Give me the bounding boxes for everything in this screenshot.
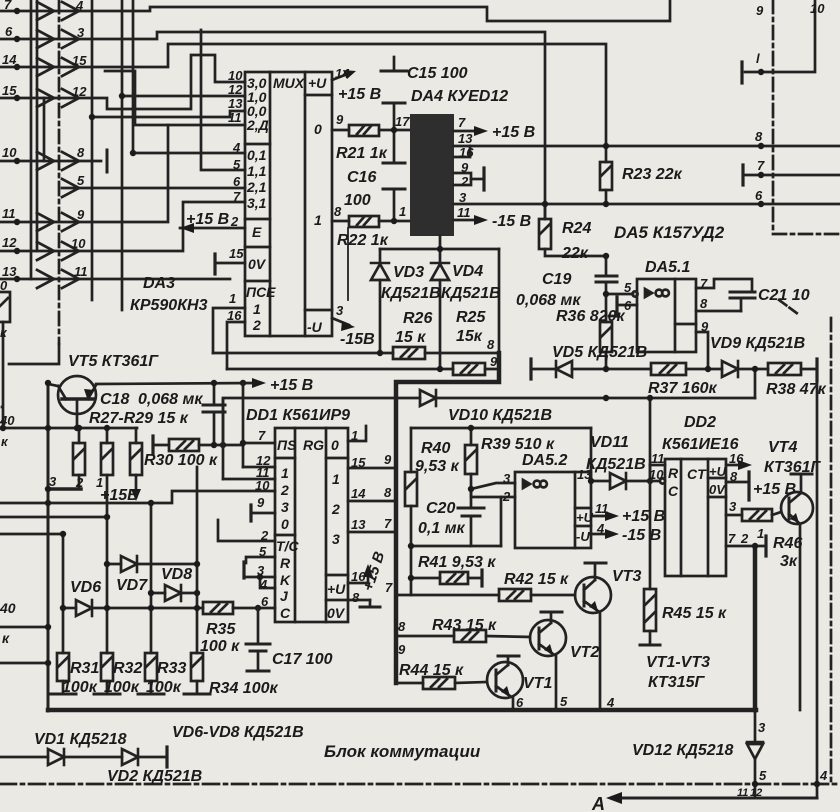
svg-text:C: C <box>668 483 679 499</box>
junction dots diode net <box>437 246 443 252</box>
resistor R39 <box>470 428 473 445</box>
wire net row y534 <box>0 533 63 536</box>
svg-text:1: 1 <box>332 471 340 487</box>
diode VD7 row <box>107 563 121 566</box>
terminal bar DA4 pins 9,2 <box>482 168 485 190</box>
svg-text:КД521В: КД521В <box>441 285 501 302</box>
short vertical link <box>43 98 46 161</box>
svg-text:R34 100к: R34 100к <box>209 680 278 697</box>
svg-text:R35: R35 <box>206 621 236 638</box>
svg-text:R21 1к: R21 1к <box>336 145 388 162</box>
svg-text:VD2 КД521В: VD2 КД521В <box>107 768 202 785</box>
svg-text:R33: R33 <box>157 660 186 677</box>
thick feedback wire <box>396 353 499 683</box>
svg-text:15: 15 <box>72 53 87 68</box>
capacitor C17 <box>257 608 260 644</box>
svg-text:5: 5 <box>759 768 767 783</box>
capacitor C21 <box>730 291 755 294</box>
svg-text:10: 10 <box>255 478 270 493</box>
connector chevron row1 <box>37 2 79 20</box>
svg-text:R: R <box>280 555 291 571</box>
svg-text:16: 16 <box>459 145 474 160</box>
svg-text:VT2: VT2 <box>570 644 599 661</box>
svg-text:2: 2 <box>502 489 511 504</box>
svg-text:2: 2 <box>740 531 749 546</box>
svg-text:VD9 КД521В: VD9 КД521В <box>710 335 805 352</box>
svg-text:C18: C18 <box>100 391 129 408</box>
svg-text:22к: 22к <box>561 245 589 262</box>
svg-text:3: 3 <box>503 471 511 486</box>
arrowhead emitter VT4 <box>790 513 799 523</box>
junction dots DA5.1 area <box>603 143 609 149</box>
svg-text:VD5 КД521В: VD5 КД521В <box>552 344 647 361</box>
svg-text:R42 15 к: R42 15 к <box>504 571 569 588</box>
wire net 7 from terminal <box>745 174 840 177</box>
svg-text:ПCE: ПCE <box>246 284 276 300</box>
svg-text:7: 7 <box>258 428 266 443</box>
svg-text:8: 8 <box>730 469 738 484</box>
svg-text:10: 10 <box>810 1 825 16</box>
svg-text:5: 5 <box>624 280 632 295</box>
svg-text:КР590КН3: КР590КН3 <box>130 297 208 314</box>
wire R34 column <box>196 467 199 653</box>
svg-text:1: 1 <box>757 526 764 541</box>
svg-text:7: 7 <box>458 115 466 130</box>
junction dots diode rows <box>45 500 51 506</box>
svg-text:VD6-VD8 КД521В: VD6-VD8 КД521В <box>172 724 304 741</box>
svg-text:9: 9 <box>336 112 344 127</box>
svg-text:R31: R31 <box>70 660 99 677</box>
diode VD3 <box>379 249 382 262</box>
svg-text:9,53 к: 9,53 к <box>415 458 460 475</box>
diode VD5 <box>556 361 572 377</box>
wire DA5.1 pin5 <box>606 293 633 296</box>
svg-text:10: 10 <box>2 145 17 160</box>
hybrid DA4 KUED12 black body <box>410 114 454 236</box>
svg-text:15к: 15к <box>456 328 483 345</box>
svg-text:VT4: VT4 <box>768 439 797 456</box>
svg-text:7: 7 <box>384 516 392 531</box>
wire R22 to DA4 pin1 <box>379 220 410 223</box>
terminal DD1 pin9 <box>249 505 252 521</box>
wire left trunk vertical <box>47 383 50 711</box>
svg-text:8: 8 <box>77 145 85 160</box>
svg-text:+15 В: +15 В <box>270 377 313 394</box>
arrowhead net A <box>606 792 622 804</box>
wire diode net top edge <box>380 248 499 251</box>
connector chevron row3 <box>37 58 79 76</box>
boundary dash-dot right lower <box>830 318 833 784</box>
bus line left 2 <box>36 0 39 251</box>
svg-text:16: 16 <box>729 451 744 466</box>
wire thick DD2 to bottom <box>753 546 758 710</box>
svg-text:VT3: VT3 <box>612 568 641 585</box>
svg-text:DA5.2: DA5.2 <box>522 452 567 469</box>
svg-text:11: 11 <box>595 501 609 516</box>
svg-text:7: 7 <box>385 580 393 595</box>
resistor R46 <box>742 509 772 521</box>
wire VD1 VD2 row <box>0 756 48 759</box>
wire row8 to pin 3.1 <box>0 202 245 251</box>
svg-text:15: 15 <box>229 246 244 261</box>
arrowhead +15V E pin <box>180 223 194 233</box>
svg-text:9: 9 <box>461 160 469 175</box>
wire to DD2 inputs <box>649 398 652 481</box>
arrowhead emitter VT3 <box>589 601 598 611</box>
wire DA3 pin9 to R21 <box>332 129 349 132</box>
wire DD1 pin16 +15V arrow <box>348 582 368 585</box>
svg-text:2: 2 <box>252 317 261 333</box>
transistor VT1 <box>487 662 523 698</box>
wire +15V rail VT5 <box>96 383 258 384</box>
resistor R36 <box>605 294 608 322</box>
bus line left 1 <box>30 0 33 279</box>
svg-text:100к: 100к <box>62 679 98 696</box>
arrowhead +15V R29 down <box>131 489 141 501</box>
svg-text:4: 4 <box>606 695 615 710</box>
wire DA5.1 pin8 <box>696 310 741 313</box>
terminal bar row5 <box>106 150 109 172</box>
svg-text:DA4 КУЕD12: DA4 КУЕD12 <box>411 88 508 105</box>
svg-text:11: 11 <box>651 451 665 466</box>
terminal bar net 7 <box>741 165 744 185</box>
transistor VT5 <box>58 376 96 414</box>
wire DD2 pin3 to R46 <box>726 514 742 517</box>
svg-text:2: 2 <box>280 482 289 498</box>
wire riser to pin 1.1 <box>201 30 245 170</box>
svg-text:9: 9 <box>490 354 498 369</box>
wire R43 row <box>396 635 454 638</box>
wire DA4 pin3 net 6 <box>454 203 840 206</box>
svg-text:8: 8 <box>352 590 360 605</box>
op-amp DA5.2 symbol <box>523 480 530 488</box>
wire mesh link upper <box>105 71 168 125</box>
svg-text:10: 10 <box>649 467 664 482</box>
wire DD1 pin13 net7 <box>348 531 396 534</box>
svg-text:VD10 КД521В: VD10 КД521В <box>448 407 552 424</box>
svg-text:КТ361Г: КТ361Г <box>764 459 822 476</box>
svg-text:R39 510 к: R39 510 к <box>481 436 555 453</box>
svg-text:T/C: T/C <box>276 538 299 554</box>
svg-text:13: 13 <box>458 131 473 146</box>
svg-text:R44 15 к: R44 15 к <box>399 662 464 679</box>
svg-text:0V: 0V <box>248 256 267 272</box>
junction dots bottom right <box>752 543 758 549</box>
wire DD1 pin6 from R35 <box>233 607 275 610</box>
svg-text:17: 17 <box>395 114 410 129</box>
wire VD10 net <box>223 397 420 400</box>
wire DA4 pin9 pin2 to terminal <box>454 173 471 185</box>
svg-text:0: 0 <box>331 437 339 453</box>
svg-text:R22 1к: R22 1к <box>337 232 389 249</box>
svg-text:9: 9 <box>384 452 392 467</box>
svg-text:16: 16 <box>227 308 242 323</box>
arrowhead -15V DA4 pin11 <box>474 215 488 225</box>
capacitor C18 <box>213 383 216 405</box>
diode VD8 row <box>151 592 165 595</box>
transistor VT4 <box>781 492 813 524</box>
wire row9 <box>0 278 230 281</box>
svg-text:2: 2 <box>331 501 340 517</box>
bus line left 4 <box>121 0 124 310</box>
resistor R43 <box>454 630 486 642</box>
svg-text:+15 В: +15 В <box>186 211 229 228</box>
svg-text:1: 1 <box>96 475 103 490</box>
resistor R37 <box>651 363 686 375</box>
svg-text:0,1: 0,1 <box>247 147 267 163</box>
svg-text:3: 3 <box>336 303 344 318</box>
register DD1 K561IR9 box <box>275 428 348 622</box>
svg-text:11: 11 <box>457 205 471 220</box>
svg-text:R46: R46 <box>773 535 802 552</box>
resistor R29 <box>135 428 138 443</box>
svg-text:15: 15 <box>351 455 366 470</box>
diode VD2 <box>122 749 138 765</box>
svg-text:VD7: VD7 <box>116 577 148 594</box>
svg-text:R25: R25 <box>456 309 486 326</box>
svg-text:к: к <box>2 630 10 646</box>
svg-text:40: 40 <box>0 600 16 616</box>
svg-text:0: 0 <box>314 121 322 137</box>
boundary terminus wire <box>9 344 59 364</box>
svg-text:8: 8 <box>755 129 763 144</box>
svg-text:1: 1 <box>399 204 406 219</box>
svg-text:14: 14 <box>335 66 350 81</box>
wire row3 <box>0 44 606 146</box>
svg-text:11: 11 <box>737 787 748 799</box>
svg-text:VT1: VT1 <box>523 675 552 692</box>
svg-text:-U: -U <box>576 529 590 544</box>
svg-text:+U: +U <box>709 464 727 479</box>
wire DD2 pin11 <box>649 465 652 481</box>
op-amp DA5.2 box <box>515 472 591 548</box>
svg-text:R32: R32 <box>113 660 142 677</box>
connector chevron row2 <box>37 30 79 48</box>
wire DD1 pin15 net9 <box>348 467 396 470</box>
multiplexer DA3 KR590KN3 box <box>245 72 332 336</box>
svg-text:l: l <box>756 51 760 66</box>
svg-text:R41 9,53 к: R41 9,53 к <box>418 554 496 571</box>
wire net 8 R26 row <box>213 352 393 355</box>
svg-text:1: 1 <box>281 465 289 481</box>
wire DA5.1 pin7 loop <box>696 279 752 292</box>
DA3 pin 2 E wire with +15V arrow <box>180 227 245 230</box>
wire bus to pin 0.1 <box>133 152 245 155</box>
resistor R23 <box>605 146 608 162</box>
svg-text:VD4: VD4 <box>452 263 483 280</box>
svg-text:7: 7 <box>4 0 12 12</box>
svg-text:VD12 КД5218: VD12 КД5218 <box>632 742 734 759</box>
wire top right input l <box>745 0 815 72</box>
wire DD1 pin12 <box>243 466 275 469</box>
diode VD10 <box>420 390 436 406</box>
wire net 9 R25 row <box>227 368 453 371</box>
transistor VT3 <box>575 577 611 613</box>
resistor 40k left edge <box>0 292 10 322</box>
svg-text:10: 10 <box>71 236 86 251</box>
svg-text:2: 2 <box>75 475 84 490</box>
svg-text:6: 6 <box>233 174 241 189</box>
wire collector bus row <box>3 427 137 430</box>
wire to pin 0.0 <box>92 111 245 117</box>
svg-text:5: 5 <box>77 173 85 188</box>
svg-text:2,1: 2,1 <box>246 179 267 195</box>
svg-text:VD1 КД5218: VD1 КД5218 <box>34 731 127 748</box>
svg-text:100к: 100к <box>146 679 182 696</box>
svg-text:0,068 мк: 0,068 мк <box>138 391 203 408</box>
arrowhead +15V DA4 pin7 <box>474 126 488 136</box>
wire DD1 pin5 <box>246 557 275 563</box>
DA3 pin 15 OV terminal <box>216 262 245 265</box>
boundary diagonal tick <box>779 300 798 314</box>
wire row7 to pin 2.D <box>0 125 245 222</box>
svg-text:1: 1 <box>314 212 322 228</box>
svg-text:+U: +U <box>308 75 327 91</box>
svg-text:DA5 К157УД2: DA5 К157УД2 <box>614 223 725 242</box>
svg-text:4: 4 <box>75 0 84 13</box>
resistor R26 <box>393 347 425 359</box>
node dots left rows <box>14 8 20 14</box>
boundary dash-dot line left <box>58 0 61 344</box>
svg-text:6: 6 <box>755 188 763 203</box>
svg-text:8: 8 <box>334 204 342 219</box>
svg-text:КТ315Г: КТ315Г <box>648 674 706 691</box>
wire +15V arrow rail above DD1 <box>222 398 225 401</box>
svg-text:+U: +U <box>327 581 346 597</box>
svg-text:12: 12 <box>750 787 762 799</box>
diode VD4 <box>439 249 442 262</box>
svg-text:3: 3 <box>332 531 340 547</box>
svg-text:R45 15 к: R45 15 к <box>662 605 727 622</box>
svg-text:+15 В: +15 В <box>338 86 381 103</box>
capacitor C16 <box>393 130 396 163</box>
wire DA5.1 pin6 terminal <box>619 304 637 307</box>
terminal bar input l <box>740 62 743 83</box>
wire R42 row <box>396 594 499 597</box>
svg-text:0: 0 <box>281 516 289 532</box>
diode VD11 <box>610 473 626 489</box>
resistor R30 <box>153 444 169 447</box>
svg-text:R30 100 к: R30 100 к <box>144 452 218 469</box>
wire VD5 R37 VD9 R38 net <box>533 368 556 371</box>
svg-text:2: 2 <box>460 174 469 189</box>
svg-text:5: 5 <box>560 694 568 709</box>
svg-text:8: 8 <box>384 485 392 500</box>
svg-text:R23 22к: R23 22к <box>622 166 683 183</box>
wire row5 <box>0 160 101 163</box>
svg-text:8: 8 <box>487 337 495 352</box>
wire DD1 pin8 ground <box>348 599 370 602</box>
boundary dash-dot right upper <box>772 0 775 234</box>
svg-text:VT1-VT3: VT1-VT3 <box>646 654 710 671</box>
svg-text:C: C <box>280 605 291 621</box>
svg-text:9: 9 <box>77 207 85 222</box>
svg-text:RG: RG <box>303 437 324 453</box>
connector chevron row4 <box>37 89 79 107</box>
wire R44 row <box>396 682 423 685</box>
capacitor C15 <box>393 57 396 71</box>
arrowhead +15V rail <box>252 378 266 388</box>
boundary dash-dot bottom <box>0 783 838 786</box>
terminal bar R38 right <box>815 359 818 381</box>
svg-text:11: 11 <box>74 264 88 279</box>
svg-text:C17 100: C17 100 <box>272 651 333 668</box>
svg-text:-15В: -15В <box>340 331 375 348</box>
svg-text:C21 10: C21 10 <box>758 287 810 304</box>
svg-text:2: 2 <box>260 528 269 543</box>
wire DD2 pin10 with bubble <box>650 480 660 483</box>
wire VD6 column <box>62 534 65 653</box>
arrowhead emitter VT2 <box>544 644 553 654</box>
svg-text:3к: 3к <box>780 553 798 570</box>
svg-text:5: 5 <box>233 157 241 172</box>
wire R21 to DA4 pin17 <box>379 129 410 132</box>
arrowhead emitter VT1 <box>501 686 510 696</box>
svg-text:DD1 К561ИР9: DD1 К561ИР9 <box>246 407 350 424</box>
capacitor C19 <box>605 256 608 276</box>
svg-text:2: 2 <box>230 214 239 229</box>
svg-text:R43 15 к: R43 15 к <box>432 617 497 634</box>
junction dots VT5 area <box>45 380 51 386</box>
wire right edge of diode net <box>498 249 501 353</box>
svg-text:VD11: VD11 <box>590 434 629 451</box>
wire DA5.1 pin9 <box>696 332 708 369</box>
wire DD1 pin7 <box>243 442 275 445</box>
wire DD2 pins 7,2,1 <box>726 545 766 548</box>
svg-text:R36 820к: R36 820к <box>556 308 625 325</box>
svg-text:9: 9 <box>398 642 406 657</box>
svg-text:14: 14 <box>351 486 366 501</box>
diode VD1 <box>48 749 64 765</box>
svg-text:13: 13 <box>351 517 366 532</box>
wire VD12 branch <box>754 710 757 742</box>
svg-text:0V: 0V <box>709 482 726 497</box>
resistor R24 <box>544 204 547 219</box>
wire row4 to pin 3.0 <box>0 55 245 109</box>
wire bus to pin 1.0 <box>122 95 245 98</box>
svg-text:КД521В: КД521В <box>586 456 646 473</box>
svg-text:4: 4 <box>819 768 828 783</box>
svg-text:6: 6 <box>624 298 632 313</box>
svg-text:9: 9 <box>756 3 764 18</box>
wire DA5.2 pin4 -15V arrow <box>591 533 612 536</box>
svg-text:R27-R29 15 к: R27-R29 15 к <box>89 410 189 427</box>
svg-text:14: 14 <box>2 52 17 67</box>
svg-text:1,1: 1,1 <box>247 163 267 179</box>
svg-text:+15 В: +15 В <box>753 481 796 498</box>
svg-text:6: 6 <box>261 594 269 609</box>
wire DA4 pin7 +15V arrow <box>454 130 478 133</box>
svg-text:Блок коммутации: Блок коммутации <box>324 742 481 761</box>
wire riser x243 <box>242 383 245 467</box>
arrowhead -15V DA5.2 <box>605 529 619 539</box>
resistor R25 <box>453 363 485 375</box>
wire VD8 column <box>150 503 153 653</box>
svg-text:13: 13 <box>228 96 243 111</box>
wire DA4 pin11 -15V arrow <box>454 219 478 222</box>
diode VD6 row <box>63 607 76 610</box>
svg-text:1: 1 <box>253 301 261 317</box>
transistor VT2 <box>530 620 566 656</box>
svg-text:А: А <box>591 794 605 812</box>
svg-text:3: 3 <box>758 720 766 735</box>
svg-text:10: 10 <box>228 68 243 83</box>
svg-text:13: 13 <box>2 264 17 279</box>
svg-text:-U: -U <box>307 319 323 335</box>
connector chevron row6 <box>62 179 79 197</box>
svg-text:C15 100: C15 100 <box>407 65 468 82</box>
wire DD2 pin16 +15V arrow <box>726 464 744 467</box>
